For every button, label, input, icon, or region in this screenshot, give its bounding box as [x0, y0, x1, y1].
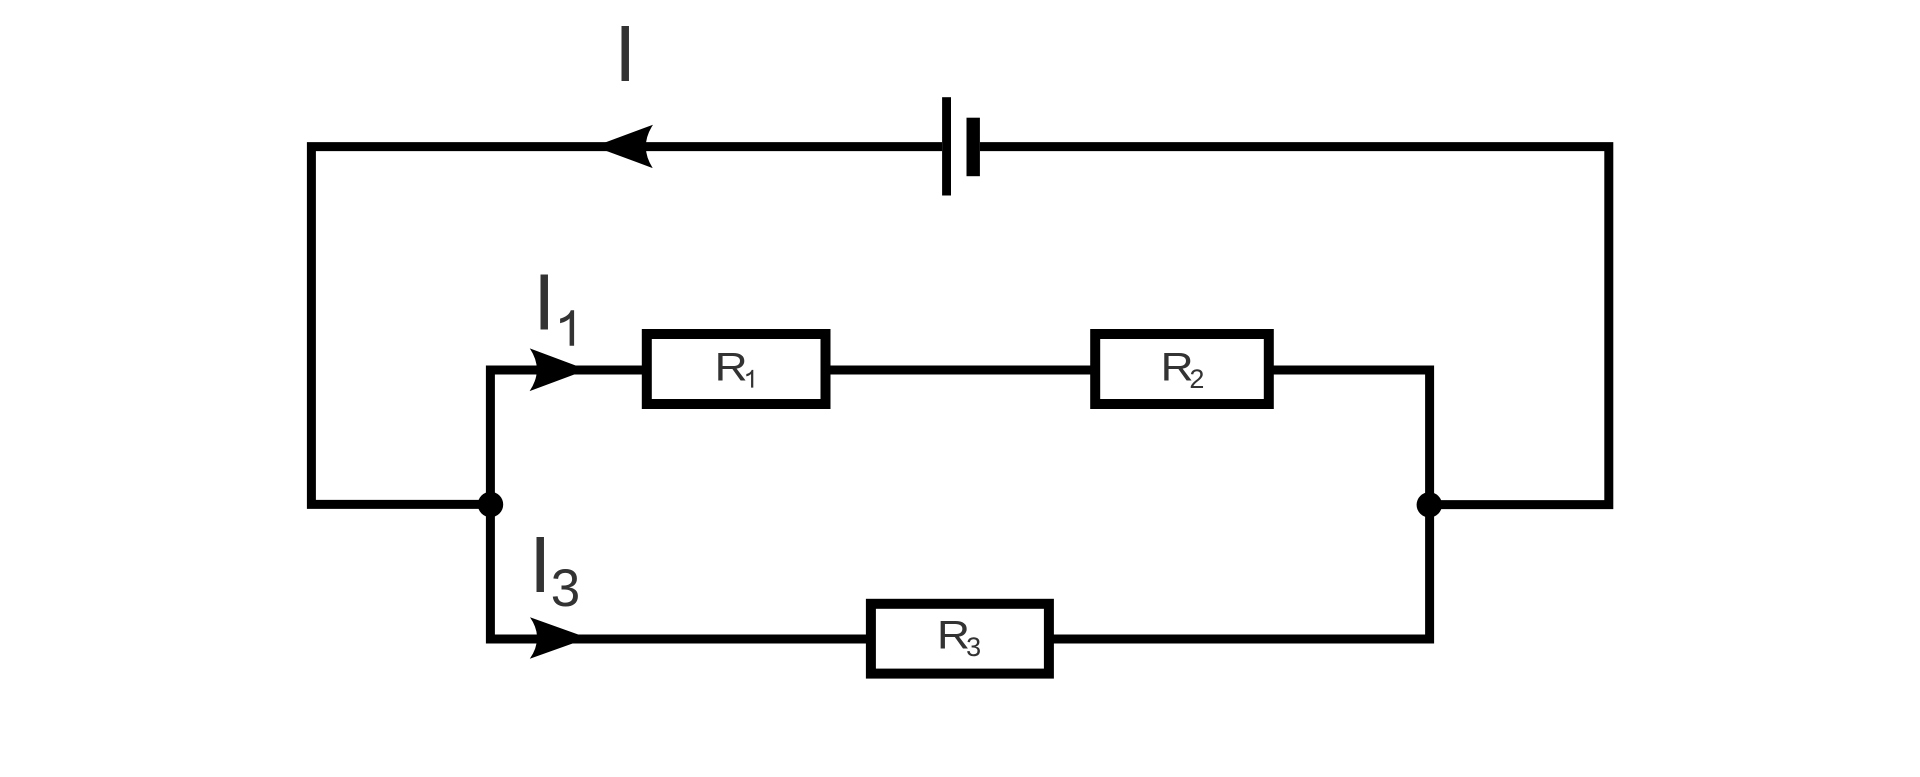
wire: inner rectangle (R1-R2 branch top, R3 branch bottom, side verticals): [490, 370, 1429, 639]
wire: outer loop right (top-right segment + right vertical + bottom-right stub): [980, 147, 1609, 505]
battery short plate (negative): [967, 118, 980, 177]
arrow: current I1 (pointing right on upper branch): [530, 348, 587, 391]
svg-text:I: I: [614, 9, 636, 98]
svg-text:3: 3: [966, 632, 981, 662]
battery long plate (positive): [942, 97, 951, 195]
node B (right junction dot): [1417, 492, 1442, 517]
wire: outer loop left (top-left segment + left vertical + bottom-left stub): [311, 147, 942, 505]
svg-text:R: R: [715, 345, 748, 389]
svg-text:I: I: [533, 257, 555, 346]
resistor R1 box: [647, 334, 826, 404]
svg-text:3: 3: [551, 559, 580, 618]
arrow: current I (pointing left on top wire): [594, 125, 653, 168]
arrow: current I3 (pointing right on lower branch): [530, 617, 588, 659]
resistor R3 box: [871, 604, 1049, 674]
svg-text:2: 2: [1189, 364, 1204, 394]
svg-text:I: I: [529, 520, 551, 609]
resistor R2 box: [1095, 334, 1269, 404]
node A (left junction dot): [478, 492, 503, 517]
